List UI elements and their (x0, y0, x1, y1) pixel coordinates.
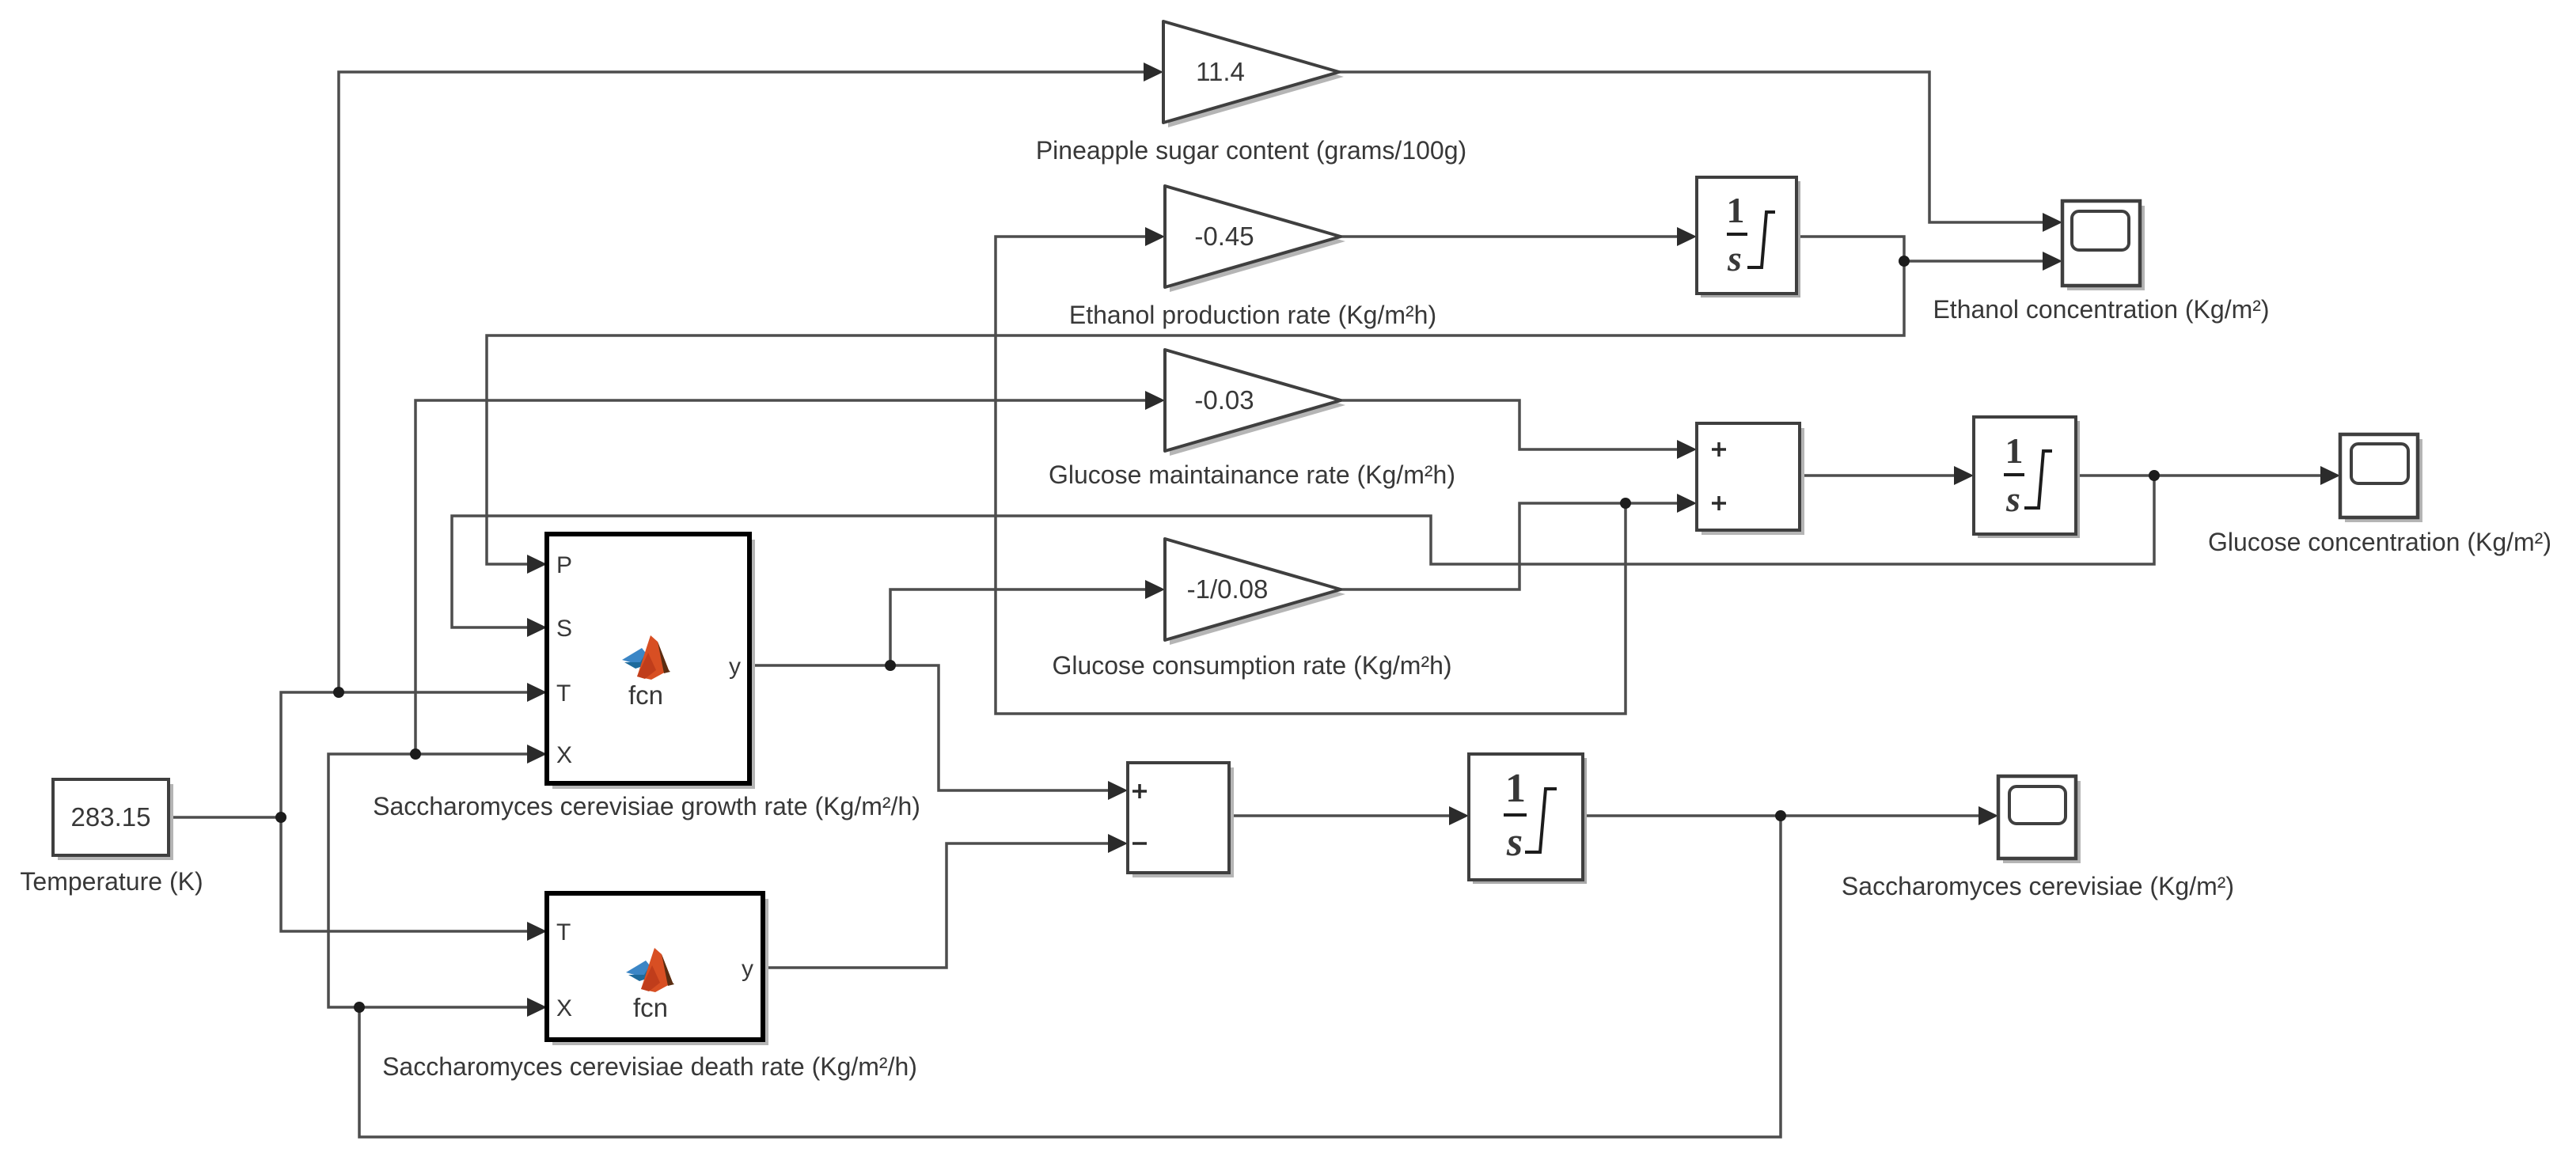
membrane icon death (626, 948, 674, 992)
integrator I2 (1974, 417, 2080, 538)
arrowhead integrator I2 input (1954, 466, 1974, 485)
junction X net at growth X line (410, 748, 421, 760)
svg-text:Ethanol production rate (Kg/m²: Ethanol production rate (Kg/m²h) (1069, 301, 1436, 329)
constant block 283.15 (53, 779, 173, 860)
wire branch from consumption net down and left up to gain -0.45 input (996, 237, 1626, 714)
junction growth y output (885, 660, 896, 671)
wire sum S1 output to integrator I2 input (1800, 474, 1956, 477)
svg-text:Saccharomyces cerevisiae growt: Saccharomyces cerevisiae growth rate (Kg… (373, 792, 920, 820)
svg-text:T: T (556, 919, 571, 946)
arrowhead growth fcn X input (527, 745, 547, 764)
arrowhead growth fcn T input (527, 683, 547, 702)
svg-text:Pineapple sugar content (grams: Pineapple sugar content (grams/100g) (1036, 136, 1466, 165)
junction X net at death X line (354, 1002, 365, 1013)
wire growth fcn y output to sum S2 plus input (749, 665, 1110, 790)
gain K1 11.4 (1163, 21, 1344, 127)
svg-text:s: s (1506, 820, 1523, 865)
svg-text:-1/0.08: -1/0.08 (1187, 574, 1269, 604)
wire growth y branch up to gain -1/0.08 input (890, 589, 1147, 665)
scope Saccharomyces cerevisiae (1998, 776, 2081, 863)
svg-text:Temperature (K): Temperature (K) (20, 867, 203, 896)
integrator I1 (1697, 177, 1800, 297)
wire integrator I3 output to Saccharomyces scope (1581, 814, 1980, 817)
arrowhead death fcn X input (527, 998, 547, 1017)
svg-text:s: s (2005, 479, 2020, 519)
svg-text:fcn: fcn (633, 993, 668, 1022)
svg-text:1: 1 (1505, 766, 1526, 811)
arrowhead Glucose scope input (2320, 466, 2340, 485)
integrator I3 (1469, 754, 1587, 884)
svg-text:y: y (742, 956, 753, 982)
arrowhead Saccharomyces scope input (1978, 806, 1998, 825)
wire T junction down to death fcn T input (281, 817, 529, 931)
svg-text:P: P (556, 552, 572, 578)
gain K3 -0.03 (1165, 350, 1345, 456)
svg-text:T: T (556, 680, 571, 707)
arrowhead sum S1 input 1 (1677, 440, 1697, 459)
arrowhead Ethanol scope bottom input (2043, 252, 2062, 271)
wire death fcn y output up to sum S2 minus input (763, 843, 1110, 968)
wire X net into death fcn X input (359, 1006, 529, 1009)
junction consumption net (1620, 498, 1631, 509)
junction I3 output feedback (1775, 810, 1786, 821)
arrowhead gain 11.4 input (1144, 63, 1163, 81)
arrowhead death fcn T input (527, 922, 547, 941)
svg-text:11.4: 11.4 (1196, 57, 1245, 86)
svg-text:s: s (1727, 238, 1742, 279)
arrowhead gain -0.45 input (1145, 227, 1165, 246)
wire constant 283.15 output to T junction (169, 816, 281, 819)
junction I2 output feedback (2149, 470, 2160, 481)
svg-text:Saccharomyces cerevisiae death: Saccharomyces cerevisiae death rate (Kg/… (382, 1052, 917, 1081)
wire integrator I2 output to Glucose scope (2076, 474, 2322, 477)
scope Glucose concentration (2340, 434, 2422, 522)
arrowhead gain -1/0.08 input (1145, 580, 1165, 599)
arrowhead gain -0.03 input (1145, 391, 1165, 410)
wire integrator I1 output down and left to growth fcn P input (487, 237, 1904, 564)
wire sum S2 output to integrator I3 input (1229, 814, 1451, 817)
arrowhead sum S2 plus input (1108, 781, 1128, 800)
svg-text:X: X (556, 995, 572, 1021)
wire gain 11.4 output to Ethanol scope top input (1339, 72, 2044, 222)
svg-text:Glucose maintainance rate (Kg/: Glucose maintainance rate (Kg/m²h) (1049, 460, 1455, 489)
wire gain -1/0.08 output to sum S1 second input (1340, 503, 1679, 589)
svg-text:1: 1 (1727, 190, 1745, 230)
sum S1 (1697, 423, 1804, 535)
wire biomass X feedback bottom loop (359, 816, 1781, 1137)
wire gain -0.03 output to sum S1 first input (1340, 400, 1679, 449)
svg-text:fcn: fcn (628, 680, 663, 710)
MATLAB function block death (547, 893, 768, 1045)
arrowhead growth fcn S input (527, 618, 547, 637)
gain K4 -1/0.08 (1165, 539, 1345, 645)
wire T junction up to growth fcn T input (281, 692, 529, 817)
svg-text:Glucose consumption rate (Kg/m: Glucose consumption rate (Kg/m²h) (1052, 651, 1451, 680)
wire gain -0.45 output to integrator I1 input (1341, 235, 1679, 238)
arrowhead sum S2 minus input (1108, 834, 1128, 853)
MATLAB function block growth (547, 534, 755, 789)
svg-text:283.15: 283.15 (71, 802, 151, 832)
svg-text:-0.03: -0.03 (1194, 385, 1254, 415)
junction temperature to 11.4 (333, 687, 344, 698)
svg-text:Glucose concentration (Kg/m²): Glucose concentration (Kg/m²) (2208, 528, 2551, 556)
wire glucose feedback to growth fcn S input (452, 476, 2154, 627)
wire X net left and up into growth fcn X input (328, 754, 529, 1007)
arrowhead Ethanol scope top input (2043, 213, 2062, 232)
gain K2 -0.45 (1165, 186, 1345, 292)
svg-text:X: X (556, 742, 572, 768)
svg-text:S: S (556, 616, 572, 642)
svg-text:Saccharomyces cerevisiae (Kg/m: Saccharomyces cerevisiae (Kg/m²) (1842, 872, 2234, 900)
svg-text:-0.45: -0.45 (1194, 222, 1254, 251)
svg-text:1: 1 (2005, 430, 2024, 471)
svg-text:y: y (729, 654, 741, 680)
junction I1 output to scope (1899, 256, 1910, 267)
wire X net branch up to gain -0.03 input (415, 400, 1147, 754)
arrowhead growth fcn P input (527, 555, 547, 574)
wire I1 output branch to Ethanol scope bottom input (1904, 260, 2044, 263)
membrane icon growth (622, 635, 670, 680)
sum S2 (1128, 763, 1234, 877)
arrowhead integrator I1 input (1677, 227, 1697, 246)
junction temperature net (275, 812, 286, 823)
svg-text:Ethanol concentration (Kg/m²): Ethanol concentration (Kg/m²) (1933, 295, 2269, 324)
wire T net branch up to gain 11.4 input (339, 72, 1145, 692)
arrowhead integrator I3 input (1449, 806, 1469, 825)
arrowhead sum S1 input 2 (1677, 494, 1697, 513)
scope Ethanol concentration (2062, 201, 2145, 290)
